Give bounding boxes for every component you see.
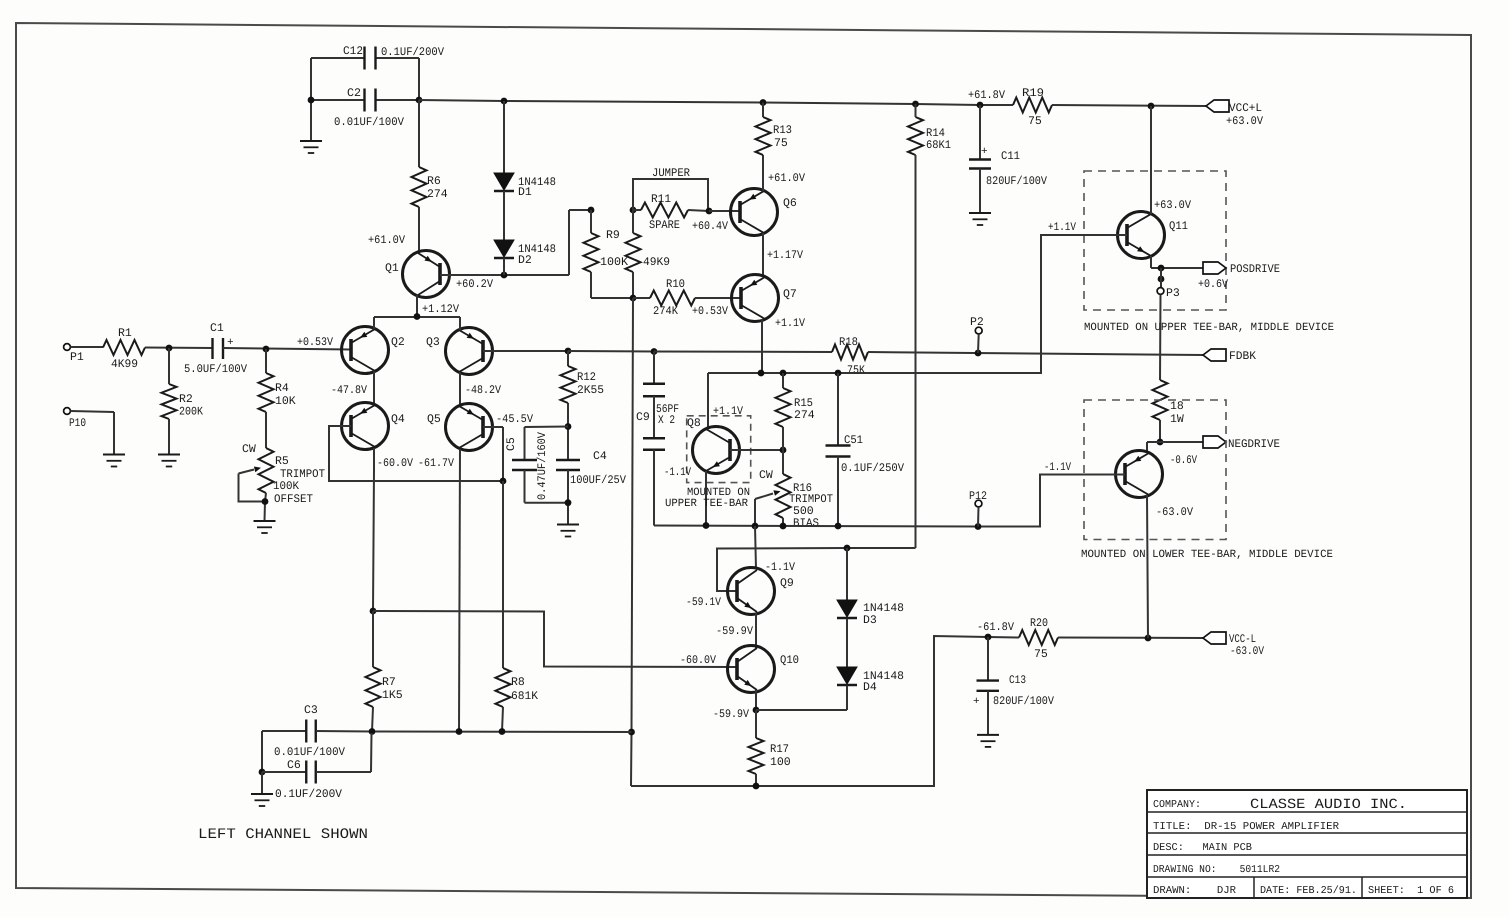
svg-text:Q6: Q6 [783,197,797,210]
junction C2 left [308,97,315,104]
wire C51 bottom [837,457,839,527]
svg-text:Q1: Q1 [385,262,399,275]
transistor Q9 [728,568,775,615]
wire C6 left leg [261,731,263,772]
svg-text:100K: 100K [273,480,299,493]
wire R11 right [688,210,709,211]
wire C2 [311,99,365,101]
tag NEGDRIVE [1203,436,1226,448]
svg-text:820UF/100V: 820UF/100V [986,175,1047,188]
junction POSDRIVE [1158,265,1165,272]
junction C51 bottom rail [835,523,842,530]
svg-text:+: + [973,696,980,708]
svg-text:-1.1V: -1.1V [1044,461,1071,474]
svg-text:Q10: Q10 [780,654,799,667]
wire C9 top [653,352,655,384]
svg-text:R19: R19 [1022,87,1044,100]
wire C6 left [262,771,306,773]
svg-text:C6: C6 [287,759,301,772]
connector P10 [64,408,71,415]
wire R1-C1 [145,347,213,350]
transistor Q3 [446,328,493,375]
junction Q12 collector rail [1145,635,1152,642]
diode D1 [494,173,514,190]
wire Q2-Q4 [373,371,375,405]
svg-text:MOUNTED ON LOWER TEE-BAR, MIDD: MOUNTED ON LOWER TEE-BAR, MIDDLE DEVICE [1081,549,1333,561]
svg-text:0.1UF/200V: 0.1UF/200V [275,788,342,801]
junction R13 top [760,99,767,106]
svg-text:+63.0V: +63.0V [1226,115,1263,128]
svg-text:CW: CW [759,469,773,482]
wire R10 right [695,297,741,299]
wire R4-R5 [265,412,267,448]
wire Q1 base [440,274,504,276]
wire P12 tick [977,507,980,527]
svg-text:+1.17V: +1.17V [767,249,803,262]
wire R2 bottom [168,419,170,455]
svg-text:820UF/100V: 820UF/100V [993,695,1054,708]
wire Q1 collector [416,295,418,317]
ground C6 [251,793,273,795]
junction R7 bottom [369,728,376,735]
transistor Q7 [732,275,779,322]
svg-text:NEGDRIVE: NEGDRIVE [1228,438,1280,451]
junction R17 bottom [753,783,760,790]
wire R10 left [633,297,650,299]
svg-text:P12: P12 [969,490,987,503]
svg-text:R4: R4 [275,382,289,395]
wire 49K9 stubs [632,210,634,233]
svg-text:200K: 200K [179,406,203,419]
wire Q4 base net [329,426,503,481]
junction C51 top [835,370,842,377]
dashed box Q8 [687,416,751,483]
wire rail left to C3 [262,730,306,732]
capacitor C4 [556,459,580,461]
transistor Q5 [446,404,493,451]
svg-text:-59.9V: -59.9V [716,625,753,638]
wire bottom left rail [372,731,632,734]
svg-text:-47.8V: -47.8V [331,384,367,397]
junction D1 top [501,98,508,105]
svg-text:+1.1V: +1.1V [1048,221,1076,234]
wire C9 bottom [653,450,655,526]
svg-text:+61.0V: +61.0V [368,234,405,247]
ground C13 [977,734,999,736]
svg-text:D3: D3 [863,614,877,627]
svg-text:R2: R2 [179,393,193,406]
capacitor C12 [363,47,365,70]
capacitor C51 [826,444,851,446]
svg-text:C2: C2 [347,87,361,100]
svg-text:SHEET: 1 OF 6: SHEET: 1 OF 6 [1368,885,1454,897]
svg-text:C1: C1 [210,322,224,335]
wire emitter rail Q2-Q3 [373,317,375,329]
junction R12 top [565,348,572,355]
wire Q5 collector down [459,449,460,732]
svg-text:JUMPER: JUMPER [652,167,690,180]
resistor 49K9 [626,233,641,272]
ground C11 [969,212,991,214]
capacitor C9b [643,437,665,439]
wire top rail [419,100,1013,105]
trimpot R16 wiper [755,494,773,500]
wire R13 top [762,103,764,118]
svg-text:-61.7V: -61.7V [418,457,454,470]
junction C9 top [651,348,658,355]
svg-text:+0.53V: +0.53V [297,336,333,349]
wire D1-D2 [503,191,505,240]
wire C13 stem [987,637,989,681]
svg-text:R6: R6 [427,175,441,188]
wire Q9-Q10 [755,613,757,648]
junction Q8 collector rail [703,522,710,529]
svg-text:+0.6V: +0.6V [1198,278,1228,291]
wire R12 top [567,351,569,366]
transistor Q8 [693,427,740,474]
junction wiper rail [752,523,759,530]
resistor R13 [756,117,771,155]
svg-text:UPPER TEE-BAR: UPPER TEE-BAR [665,498,748,510]
resistor R4 [259,373,274,412]
connector P3 [1157,288,1164,295]
junction x631 rail [628,729,635,736]
svg-text:R18: R18 [839,336,858,349]
transistor Q12 [1116,451,1163,498]
wire rail to VCC+L [1052,105,1206,106]
wire D3 stem [846,548,848,600]
wire R18 to FDBK tag [868,352,1203,355]
svg-text:681K: 681K [511,690,538,703]
wire P3 down [1159,295,1162,381]
svg-text:MOUNTED ON UPPER TEE-BAR, MIDD: MOUNTED ON UPPER TEE-BAR, MIDDLE DEVICE [1084,322,1334,334]
resistor R19 [1013,98,1052,113]
wire bottom rail [631,636,988,786]
resistor R5 trimpot [259,448,274,493]
wire P2 tick [977,334,980,353]
wire Q9 base net [717,548,914,591]
svg-text:18: 18 [1170,400,1184,413]
capacitor C13 [977,679,1000,681]
svg-text:COMPANY:: COMPANY: [1153,799,1201,811]
svg-text:+63.0V: +63.0V [1154,199,1191,212]
wire bias rail [654,475,1125,527]
svg-text:BIAS: BIAS [793,517,819,530]
svg-text:0.01UF/100V: 0.01UF/100V [334,116,404,129]
svg-text:R1: R1 [118,327,132,340]
transistor Q11 [1118,212,1165,259]
svg-text:P10: P10 [69,417,86,430]
svg-text:-45.5V: -45.5V [496,413,533,426]
wire D3-D4 [846,619,848,668]
svg-text:C3: C3 [304,704,318,717]
wire R17 stub [755,710,757,738]
junction +1.12V node [414,313,421,320]
svg-text:0.1UF/200V: 0.1UF/200V [381,46,444,59]
svg-text:4K99: 4K99 [111,358,138,371]
junction R11 Q6 base [706,208,713,215]
ground C4 [557,524,579,526]
wire Q7 emitter down [761,319,763,373]
diode D3 [837,600,857,617]
svg-text:R7: R7 [382,676,396,689]
svg-text:D2: D2 [518,254,532,267]
wire Q4 collector down [373,448,375,470]
wire C13 bottom [987,691,989,735]
wire C11 bottom [979,169,981,214]
svg-text:+61.8V: +61.8V [968,89,1005,102]
wire R14 top stub [915,104,917,117]
title block frame [1147,790,1467,898]
wire D1 top [503,101,505,173]
svg-text:R8: R8 [511,676,525,689]
svg-text:P2: P2 [970,316,984,329]
wire C11 stem [979,105,981,159]
svg-text:DRAWING NO: 5011LR2: DRAWING NO: 5011LR2 [1153,864,1280,876]
resistor R18 [832,345,868,360]
svg-text:+0.53V: +0.53V [692,305,728,318]
svg-text:-0.6V: -0.6V [1170,454,1197,467]
capacitor C9a [643,383,665,385]
wire R20 left [988,636,1019,639]
svg-text:CW: CW [242,443,256,456]
svg-text:-1.1V: -1.1V [664,466,691,479]
svg-text:C5: C5 [505,437,518,451]
wire P1-R1 [71,346,104,348]
svg-text:-60.0V: -60.0V [680,654,716,667]
wire C6 ground stem [261,772,263,794]
svg-text:-59.1V: -59.1V [686,596,721,609]
svg-text:DESC: MAIN PCB: DESC: MAIN PCB [1153,842,1252,854]
wire Q11 collector [1150,106,1152,214]
svg-text:1K5: 1K5 [382,689,403,702]
junction 49K9 top [630,207,637,214]
resistor R9 [584,233,599,272]
svg-text:OFFSET: OFFSET [274,493,313,506]
svg-text:-59.9V: -59.9V [713,708,749,721]
wire R6 top [418,100,420,167]
wire Q6 base [709,210,740,212]
wire C5 bottom branch [524,470,526,503]
wire P10 [71,411,115,412]
svg-text:X 2: X 2 [658,414,675,427]
wire +1.1V rail [708,235,1127,373]
wire R7 stubs [372,611,374,667]
svg-text:Q8: Q8 [687,417,701,430]
svg-text:-63.0V: -63.0V [1230,645,1264,658]
junction R7 top [370,608,377,615]
svg-text:+1.12V: +1.12V [422,303,459,316]
resistor R 18ohm [1153,380,1168,420]
capacitor C5 [512,459,537,461]
svg-text:-61.8V: -61.8V [977,621,1014,634]
wire Q12 collector [1147,495,1148,638]
svg-text:49K9: 49K9 [643,256,670,269]
wire C4 bottom [567,470,569,503]
svg-text:+61.0V: +61.0V [768,172,805,185]
wire C5 top branch [525,426,569,429]
svg-text:100: 100 [770,756,791,769]
junction R17 top [753,707,760,714]
transistor Q2 [342,327,389,374]
transistor Q1 [403,251,450,298]
ground R5 [254,520,276,522]
svg-text:P3: P3 [1166,287,1180,300]
junction D3 top [844,545,851,552]
svg-text:274: 274 [794,409,815,422]
svg-text:R9: R9 [606,229,620,242]
svg-text:-48.2V: -48.2V [465,384,501,397]
svg-text:LEFT CHANNEL SHOWN: LEFT CHANNEL SHOWN [198,827,368,843]
svg-text:5.0UF/100V: 5.0UF/100V [184,363,247,376]
svg-text:C12: C12 [343,45,363,58]
wire D4 bottom [846,686,848,711]
svg-text:R12: R12 [577,371,596,384]
junction Q1 base D2 [501,272,508,279]
svg-text:100UF/25V: 100UF/25V [570,474,626,487]
wire C12 top [311,57,365,59]
svg-text:CLASSE AUDIO INC.: CLASSE AUDIO INC. [1250,797,1407,813]
svg-text:R5: R5 [275,455,289,468]
junction R10 left [630,295,637,302]
transistor Q10 [728,646,775,693]
junction R16 bottom rail [780,523,787,530]
wire P3 link [1160,268,1162,288]
resistor R1 [103,340,145,355]
svg-text:DATE: FEB.25/91.: DATE: FEB.25/91. [1260,885,1357,897]
wire R9 bottom [590,272,592,298]
wire jumper [633,179,708,211]
wire Q10 emitter [755,690,757,710]
svg-text:C9: C9 [636,411,650,424]
junction Q7 emitter [758,370,765,377]
svg-text:0.01UF/100V: 0.01UF/100V [274,746,345,759]
svg-text:Q5: Q5 [427,413,441,426]
wire D2 bottom [503,258,505,275]
svg-text:C51: C51 [844,434,863,447]
svg-text:75: 75 [774,137,788,150]
junction P2 [975,350,982,357]
wire Q11 base [1041,234,1127,236]
ground R2 [158,454,180,456]
diode D4 [837,667,857,684]
tag VCC+L [1206,100,1229,112]
wire C12-C2 left leg [310,58,312,100]
wire R4 top [265,349,267,373]
ground P10 [103,454,125,456]
capacitor C1 [211,338,213,359]
wire R17 bottom [755,774,757,786]
transistor Q6 [731,189,778,236]
svg-text:D4: D4 [863,681,877,694]
svg-text:R11: R11 [651,193,671,206]
wire Q8 emitter [707,373,709,428]
svg-text:Q4: Q4 [391,413,405,426]
wire NEGDRIVE [1147,441,1203,443]
svg-text:R10: R10 [666,278,685,291]
svg-text:+60.4V: +60.4V [692,220,728,233]
svg-text:R17: R17 [770,743,789,756]
svg-text:274: 274 [427,188,448,201]
wire Q9 collector [755,526,756,569]
wire Q8 base [730,449,783,451]
tag FDBK [1203,349,1226,361]
resistor R10 [650,291,695,306]
svg-text:Q9: Q9 [780,577,794,590]
wire 18ohm bottom [1159,420,1161,442]
wire R8 bottom [502,707,503,732]
junction R4 top [263,346,270,353]
svg-text:2K55: 2K55 [577,384,604,397]
junction Q8 base R15 R16 [780,447,787,454]
wire R15-R16 [782,427,784,474]
svg-text:C11: C11 [1001,150,1020,163]
wire Q5 base [483,426,503,428]
wire C3 right [316,730,372,733]
wire Q11 emitter [1150,256,1152,268]
junction NEGDRIVE [1157,439,1164,446]
svg-text:R13: R13 [773,124,792,137]
tag VCC-L [1203,632,1226,644]
wire R14 down [915,155,917,548]
wire POSDRIVE [1151,267,1203,269]
wire R2 top [168,348,170,384]
dashed box Q11 [1084,171,1226,310]
resistor R6 [412,167,427,207]
junction R9 top [588,207,595,214]
svg-text:0.47UF/160V: 0.47UF/160V [536,432,549,500]
svg-text:C4: C4 [593,450,607,463]
wire FDBK rail left [483,350,568,352]
svg-text:75: 75 [1028,115,1042,128]
capacitor C11 [969,158,991,160]
resistor R15 [776,388,791,427]
transistor Q4 [342,403,389,450]
junction C11 top [977,102,984,109]
resistor R17 [749,738,764,774]
junction R5 bottom [262,498,269,505]
svg-text:P1: P1 [70,351,84,364]
junction Q5 bottom [456,728,463,735]
svg-text:+60.2V: +60.2V [456,278,493,291]
wire R5 bottom [265,493,266,502]
wire R8 top [502,481,504,668]
junction base net [500,478,507,485]
resistor R16 trimpot [776,474,791,518]
junction Q11 collector rail [1148,103,1155,110]
wire R11 left [633,209,641,211]
resistor R8 [496,668,511,707]
svg-text:VCC+L: VCC+L [1229,102,1262,115]
junction C2 right [416,97,423,104]
capacitor C6 [305,761,307,784]
wire Q10 base net [373,611,737,667]
connector P12 [975,500,982,507]
svg-text:Q2: Q2 [391,336,405,349]
junction R14 top [912,101,919,108]
junction R2 top [166,345,173,352]
junction C4 C5 bottom [565,499,572,506]
wire Q6 collector up [762,155,764,191]
capacitor C2 [363,89,365,112]
wire FDBK mid [568,350,654,353]
connector P1 [64,344,71,351]
resistor R12 [561,366,576,403]
junction C6 left [259,769,266,776]
svg-text:C13: C13 [1009,674,1026,687]
svg-text:POSDRIVE: POSDRIVE [1230,263,1280,276]
svg-text:-60.0V: -60.0V [377,457,413,470]
